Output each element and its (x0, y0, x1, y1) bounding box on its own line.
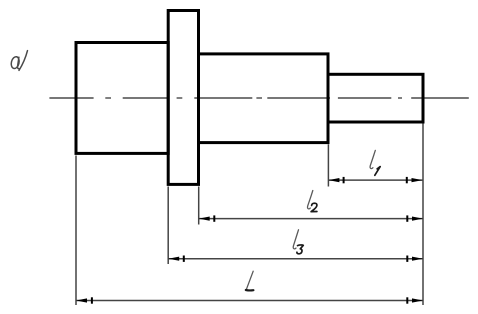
arrow L right (412, 298, 423, 302)
extension line at left end of L (75, 156, 77, 306)
dimension line l2 (199, 218, 423, 220)
shaft section 2 (middle cylinder) (199, 54, 329, 143)
tick l2 right (406, 215, 408, 221)
label L (246, 271, 254, 290)
arrow l3 right (412, 257, 423, 261)
tick l3 left (183, 256, 185, 262)
extension line at left end of l1 (327, 144, 329, 186)
dimension line L (76, 300, 423, 302)
extension line at left end of l3 (167, 187, 169, 265)
tick l1 right (406, 177, 408, 183)
label a) (10, 51, 27, 71)
shaft section 1 (left cylinder) (76, 43, 168, 154)
centerline (49, 97, 468, 99)
tick l1 left (343, 177, 345, 183)
arrow L left (76, 298, 87, 302)
arrow l2 left (199, 217, 210, 221)
arrow l1 left (328, 178, 339, 182)
label l3 (293, 230, 303, 254)
dimension line l1 (328, 179, 422, 181)
extension line at left end of l2 (198, 187, 200, 225)
label l1 (370, 150, 380, 175)
shaft section 3 (right cylinder) (328, 74, 423, 122)
extension line at right shaft end (422, 124, 424, 306)
arrow l3 left (168, 257, 179, 261)
shaft flange (tall collar) (168, 11, 198, 185)
tick l3 right (406, 256, 408, 262)
tick L right (406, 297, 408, 303)
tick L left (91, 297, 93, 303)
arrow l1 right (412, 178, 423, 182)
arrow l2 right (412, 217, 423, 221)
label l2 (307, 191, 316, 212)
dimension line l3 (168, 258, 423, 260)
tick l2 left (213, 215, 215, 221)
